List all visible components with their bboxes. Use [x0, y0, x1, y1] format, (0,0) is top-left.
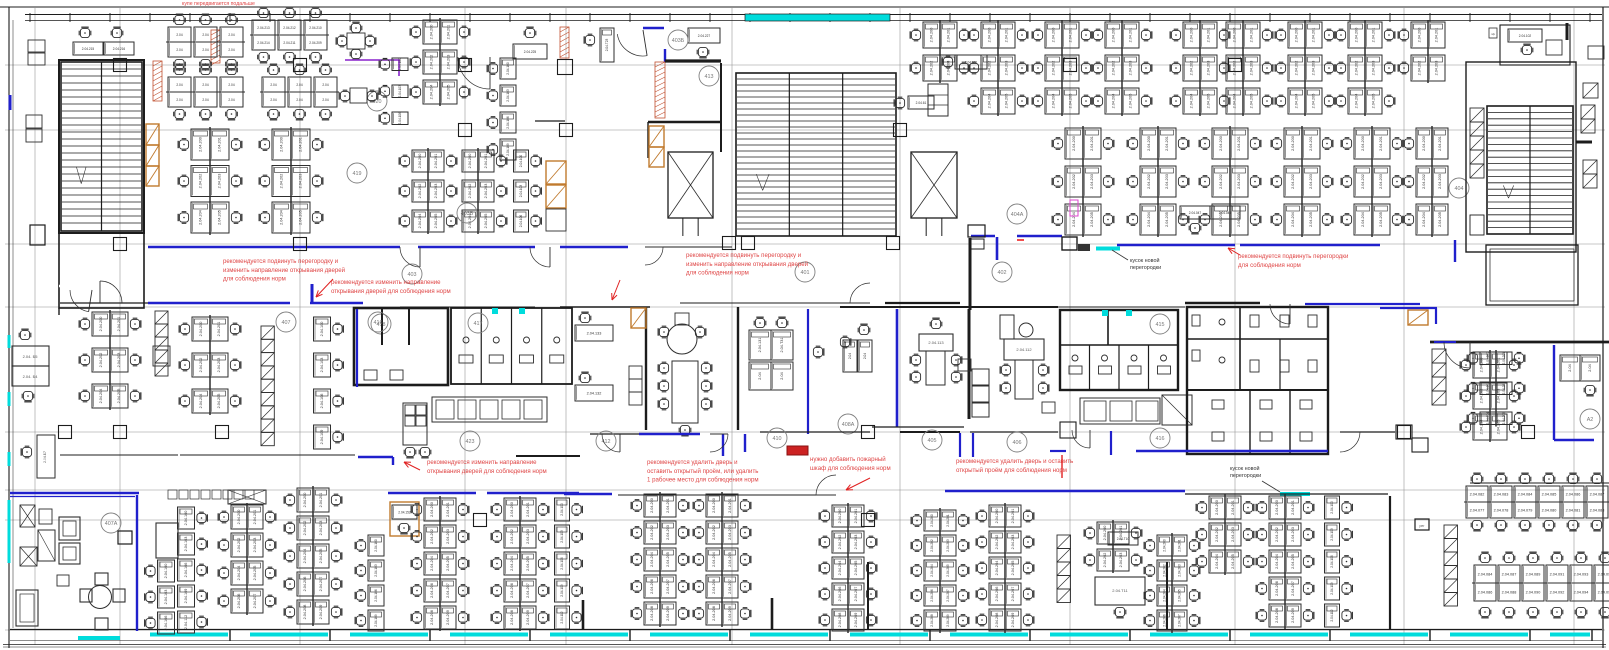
svg-text:2.04.203: 2.04.203 — [854, 535, 858, 550]
svg-text:2.04.095: 2.04.095 — [1598, 572, 1609, 576]
svg-text:2.04.215: 2.04.215 — [82, 47, 95, 51]
circle 404A — [1007, 204, 1027, 224]
svg-text:2.04.200: 2.04.200 — [1215, 500, 1219, 515]
svg-text:2.04.100: 2.04.100 — [320, 322, 324, 337]
svg-text:2.04: 2.04 — [758, 372, 762, 379]
svg-text:2.04.208: 2.04.208 — [930, 614, 934, 627]
svg-text:2.04.048: 2.04.048 — [1219, 211, 1232, 215]
WC right block — [1187, 307, 1328, 454]
svg-text:2.04.210: 2.04.210 — [309, 26, 322, 30]
svg-text:2.04.205: 2.04.205 — [1011, 561, 1015, 576]
svg-text:2.04.200: 2.04.200 — [1418, 28, 1422, 43]
svg-text:2.04.202: 2.04.202 — [303, 521, 307, 536]
svg-text:2.04.203: 2.04.203 — [666, 525, 670, 540]
svg-text:2.04.201: 2.04.201 — [946, 514, 950, 527]
svg-text:2.04.202: 2.04.202 — [838, 535, 842, 550]
svg-text:2.04.200: 2.04.200 — [1163, 539, 1167, 552]
svg-text:2.04.203: 2.04.203 — [434, 184, 438, 199]
svg-text:А2: А2 — [1587, 417, 1594, 423]
svg-text:2.04.227: 2.04.227 — [698, 34, 711, 38]
svg-text:2.04.205: 2.04.205 — [1207, 94, 1211, 109]
small table — [118, 531, 132, 544]
svg-text:2.04.205: 2.04.205 — [854, 561, 858, 576]
svg-text:2.04.Т10: 2.04.Т10 — [1117, 537, 1130, 541]
svg-text:403Б: 403Б — [461, 211, 474, 217]
svg-text:2.04.200: 2.04.200 — [237, 510, 241, 525]
svg-text:2.04.204: 2.04.204 — [1422, 212, 1426, 227]
shafts right of stair — [1583, 83, 1598, 98]
desk right of stair — [955, 55, 987, 69]
svg-text:2.04: 2.04 — [270, 98, 276, 102]
svg-text:2.04.200: 2.04.200 — [1052, 28, 1056, 43]
svg-text:2.04.205: 2.04.205 — [526, 556, 530, 571]
svg-text:2.04: 2.04 — [228, 98, 234, 102]
svg-text:2.04.202: 2.04.202 — [1052, 61, 1056, 76]
bottom right rows — [1466, 486, 1488, 502]
svg-text:2.04.209: 2.04.209 — [728, 606, 732, 621]
svg-text:2.04.201: 2.04.201 — [1438, 136, 1442, 151]
lower corridor bottom wall — [10, 492, 139, 495]
wall between — [645, 307, 647, 430]
svg-text:2.04.205: 2.04.205 — [1129, 94, 1133, 109]
svg-text:2.04: 2.04 — [202, 98, 208, 102]
svg-text:2.04.207: 2.04.207 — [446, 583, 450, 598]
svg-text:2.04: 2.04 — [322, 98, 328, 102]
blue wall left of WC — [356, 309, 358, 387]
round table group — [89, 586, 112, 609]
svg-text:2.04.205: 2.04.205 — [1312, 94, 1316, 109]
svg-text:2.04.204: 2.04.204 — [99, 389, 103, 404]
orange desk stack — [546, 161, 566, 184]
blue wall right — [1553, 345, 1555, 440]
svg-text:2.04.207: 2.04.207 — [1011, 587, 1015, 602]
svg-text:2.04.202: 2.04.202 — [430, 529, 434, 544]
svg-text:2.04.200: 2.04.200 — [1072, 136, 1076, 151]
svg-text:2.04.133: 2.04.133 — [587, 331, 602, 335]
right mid-band cluster 2.04.07x — [1473, 352, 1490, 378]
svg-text:2.04.214: 2.04.214 — [257, 41, 270, 45]
svg-text:2.04.205: 2.04.205 — [1438, 212, 1442, 227]
right stairwell block — [1466, 62, 1576, 252]
svg-text:2.04.100: 2.04.100 — [374, 539, 378, 552]
svg-text:2.04.207: 2.04.207 — [1178, 614, 1182, 627]
svg-text:2.04.200: 2.04.200 — [712, 498, 716, 513]
svg-text:2.04.213: 2.04.213 — [257, 26, 270, 30]
WC block left — [354, 308, 448, 385]
pink mark — [1070, 200, 1078, 216]
svg-text:2.04.201: 2.04.201 — [434, 154, 438, 169]
structural columns — [114, 238, 127, 251]
svg-text:2.04.200: 2.04.200 — [1480, 358, 1484, 373]
locker column mid2 — [261, 326, 274, 339]
circle 418 — [371, 314, 391, 334]
svg-text:2.04: 2.04 — [270, 83, 276, 87]
meeting room long table — [672, 361, 698, 423]
svg-text:2.04.086: 2.04.086 — [1566, 492, 1581, 496]
svg-text:2.04.085: 2.04.085 — [1542, 492, 1557, 496]
svg-text:2.04.109: 2.04.109 — [320, 430, 324, 445]
svg-text:2.04.207: 2.04.207 — [253, 594, 257, 609]
svg-text:404А: 404А — [1011, 212, 1024, 218]
svg-text:2.04.209: 2.04.209 — [666, 606, 670, 621]
svg-text:2.04.203: 2.04.203 — [1379, 174, 1383, 189]
upper corridor bottom wall — [60, 302, 148, 304]
svg-text:2.04.103: 2.04.103 — [184, 537, 188, 552]
svg-text:2.04.205: 2.04.205 — [1309, 212, 1313, 227]
main upper-left cluster — [191, 129, 210, 160]
svg-text:2.04.205: 2.04.205 — [484, 214, 488, 229]
svg-text:2.04.100: 2.04.100 — [506, 62, 510, 75]
svg-text:2.04.201: 2.04.201 — [1497, 358, 1501, 373]
kitchen counters below WC — [432, 397, 547, 422]
svg-text:2.04.202: 2.04.202 — [280, 174, 284, 189]
svg-text:2.04.081: 2.04.081 — [1566, 508, 1581, 512]
bottom cluster 6 — [504, 498, 520, 521]
svg-text:2.04.201: 2.04.201 — [854, 509, 858, 524]
shaft column left of right stair — [1470, 108, 1484, 122]
svg-text:2.04: 2.04 — [176, 33, 182, 37]
svg-text:нужно добавить пожарный: нужно добавить пожарный — [810, 456, 886, 463]
svg-text:2.04.201: 2.04.201 — [1005, 28, 1009, 43]
svg-text:2.04.106: 2.04.106 — [184, 563, 188, 578]
svg-text:2.04.206: 2.04.206 — [303, 577, 307, 592]
orange desk bottom — [390, 502, 419, 536]
svg-text:2.04: 2.04 — [228, 83, 234, 87]
svg-text:2.04.103: 2.04.103 — [320, 358, 324, 373]
blue partition corridor right — [1117, 244, 1235, 247]
svg-text:2.04.202: 2.04.202 — [510, 529, 514, 544]
svg-text:2.04.204: 2.04.204 — [1355, 94, 1359, 109]
svg-text:2.04.203: 2.04.203 — [1237, 174, 1241, 189]
svg-text:купе передвигается подальше: купе передвигается подальше — [182, 1, 255, 7]
svg-text:для соблюдения норм: для соблюдения норм — [223, 276, 286, 283]
door jambs below 112 — [959, 433, 961, 457]
svg-text:2.04.Т23: 2.04.Т23 — [605, 38, 609, 51]
svg-text:2.04.206: 2.04.206 — [650, 579, 654, 594]
svg-text:2.04.206: 2.04.206 — [995, 587, 999, 602]
svg-text:2.04.201: 2.04.201 — [117, 317, 121, 332]
elevator left — [668, 152, 713, 218]
svg-text:лф: лф — [1491, 32, 1496, 36]
svg-text:2.04.084: 2.04.084 — [1478, 572, 1493, 576]
svg-text:2.04.200: 2.04.200 — [510, 502, 514, 517]
svg-text:2.04: 2.04 — [296, 83, 302, 87]
room 2.04.113 walls — [896, 309, 899, 427]
svg-text:2.04.208: 2.04.208 — [430, 610, 434, 625]
svg-text:2.04.203: 2.04.203 — [253, 538, 257, 553]
svg-text:2.04.086: 2.04.086 — [1478, 590, 1493, 594]
svg-text:2.04.201: 2.04.201 — [218, 137, 222, 152]
svg-text:417: 417 — [474, 321, 483, 327]
central stair bottom columns — [723, 237, 736, 250]
bottom cluster 3 — [297, 488, 313, 512]
svg-text:2.04.106: 2.04.106 — [398, 112, 402, 125]
svg-text:2.04.204: 2.04.204 — [995, 561, 999, 576]
svg-text:2.04.204: 2.04.204 — [1233, 94, 1237, 109]
svg-text:для соблюдения норм: для соблюдения норм — [1238, 262, 1301, 269]
svg-text:изменить направление открывани: изменить направление открывания дверей — [223, 267, 345, 274]
svg-text:2.04: 2.04 — [296, 98, 302, 102]
circle 403B — [457, 203, 477, 223]
svg-text:2.04.204: 2.04.204 — [430, 85, 434, 100]
middle cluster 3 — [314, 317, 331, 341]
svg-text:2.04.106: 2.04.106 — [374, 589, 378, 602]
svg-text:2.04.204: 2.04.204 — [1291, 212, 1295, 227]
svg-text:2.04.203: 2.04.203 — [1011, 535, 1015, 550]
svg-text:2.04.206: 2.04.206 — [430, 583, 434, 598]
svg-text:2.04: 2.04 — [202, 48, 208, 52]
bottom right row 3 chairs — [1479, 607, 1491, 617]
red hatch strip left — [153, 61, 162, 101]
svg-text:2.04.203: 2.04.203 — [1497, 389, 1501, 404]
svg-text:2.04.206: 2.04.206 — [510, 583, 514, 598]
svg-text:рекомендуется изменить направл: рекомендуется изменить направление — [427, 459, 537, 466]
svg-text:2.04.083: 2.04.083 — [1494, 492, 1509, 496]
svg-text:открывания дверей для соблюден: открывания дверей для соблюдения норм — [427, 468, 547, 475]
svg-text:2.04.204: 2.04.204 — [1163, 589, 1167, 602]
svg-text:2.04.211: 2.04.211 — [283, 41, 295, 45]
upper corridor top wall — [148, 246, 400, 248]
bottom cluster 2 — [228, 490, 266, 504]
cluster x430 — [423, 20, 440, 44]
svg-text:2.04.205: 2.04.205 — [299, 210, 303, 225]
meeting room 1 desks 2.04.133 — [575, 325, 613, 341]
svg-text:2.04.203: 2.04.203 — [947, 61, 951, 76]
svg-text:2.04.109: 2.04.109 — [560, 584, 564, 597]
svg-text:2.04.205: 2.04.205 — [447, 85, 451, 100]
svg-text:2.04.207: 2.04.207 — [1291, 581, 1295, 596]
svg-text:2.04.216: 2.04.216 — [113, 47, 126, 51]
desks left of room 113 — [843, 340, 857, 372]
svg-text:2.04.205: 2.04.205 — [1379, 212, 1383, 227]
blue wall x808 — [807, 309, 809, 434]
svg-text:2.04.205: 2.04.205 — [1497, 420, 1501, 435]
door arcs entry — [458, 57, 490, 89]
svg-text:2.04.200: 2.04.200 — [838, 509, 842, 524]
svg-text:2.04.200: 2.04.200 — [430, 502, 434, 517]
svg-text:2.04.204: 2.04.204 — [1275, 554, 1279, 569]
svg-text:2.04.201: 2.04.201 — [1231, 500, 1235, 515]
bottom tiny row — [168, 490, 177, 499]
svg-text:кусок новой: кусок новой — [1130, 257, 1159, 264]
meeting room round table — [667, 324, 697, 354]
svg-text:2.04.206: 2.04.206 — [237, 594, 241, 609]
svg-text:2.04.106: 2.04.106 — [164, 616, 168, 631]
svg-text:2.04.096: 2.04.096 — [1598, 590, 1609, 594]
svg-text:2.04.Б7: 2.04.Б7 — [43, 451, 47, 463]
svg-text:2.04.103: 2.04.103 — [1330, 528, 1334, 541]
circle 407A — [101, 513, 121, 533]
desks above left stair — [73, 42, 103, 55]
svg-text:2.04.200: 2.04.200 — [199, 322, 203, 337]
svg-text:2.04.200: 2.04.200 — [199, 137, 203, 152]
svg-text:2.04.206: 2.04.206 — [930, 589, 934, 602]
svg-text:2.04.200: 2.04.200 — [303, 493, 307, 508]
svg-text:2.04.202: 2.04.202 — [995, 535, 999, 550]
outer top wall — [0, 6, 1609, 8]
svg-text:2.04.201: 2.04.201 — [484, 154, 488, 169]
cluster A2 — [168, 77, 191, 92]
svg-text:2.04.103: 2.04.103 — [560, 530, 564, 543]
svg-text:2.04.202: 2.04.202 — [199, 358, 203, 373]
svg-text:2.04.100: 2.04.100 — [519, 155, 523, 168]
svg-text:403: 403 — [408, 272, 417, 278]
svg-text:2.04.079: 2.04.079 — [1518, 508, 1533, 512]
lockers col x497 — [500, 58, 516, 79]
svg-text:2.04: 2.04 — [176, 98, 182, 102]
svg-text:2.04.202: 2.04.202 — [1418, 61, 1422, 76]
cluster A — [168, 27, 191, 42]
outer right wall — [1602, 7, 1604, 648]
table T11 — [1095, 577, 1145, 605]
svg-text:2.04: 2.04 — [1588, 364, 1592, 371]
svg-text:2.04.089: 2.04.089 — [1526, 572, 1541, 576]
lower corridor top wall — [60, 454, 178, 456]
svg-text:2.04.203: 2.04.203 — [1438, 174, 1442, 189]
svg-text:2.04.206: 2.04.206 — [1163, 614, 1167, 627]
svg-text:2.04.204: 2.04.204 — [650, 552, 654, 567]
svg-text:2.04.201: 2.04.201 — [253, 510, 257, 525]
svg-text:2.04.204: 2.04.204 — [1295, 94, 1299, 109]
svg-text:2.04.204: 2.04.204 — [988, 94, 992, 109]
svg-text:2.04. Б5: 2.04. Б5 — [23, 354, 39, 359]
svg-text:2.04.112: 2.04.112 — [184, 615, 188, 630]
svg-text:2.04.200: 2.04.200 — [1275, 500, 1279, 515]
svg-text:2.04.202: 2.04.202 — [650, 525, 654, 540]
svg-text:2.04.200: 2.04.200 — [930, 28, 934, 43]
entry desks 2.04.227 — [688, 28, 720, 43]
left stairwell walls — [59, 60, 144, 233]
svg-text:2.04.202: 2.04.202 — [1233, 61, 1237, 76]
svg-text:2.04.205: 2.04.205 — [217, 394, 221, 409]
svg-text:1 рабочее место для соблюдения: 1 рабочее место для соблюдения норм — [647, 477, 759, 484]
svg-text:406: 406 — [1013, 440, 1022, 446]
svg-text:413: 413 — [705, 74, 714, 80]
svg-text:2.04.201: 2.04.201 — [1372, 28, 1376, 43]
corridor circles lower — [596, 431, 616, 451]
reg box — [1415, 519, 1429, 530]
svg-text:401: 401 — [801, 270, 810, 276]
svg-text:2.04.209: 2.04.209 — [854, 613, 858, 628]
svg-text:2.04.090: 2.04.090 — [1526, 590, 1541, 594]
svg-text:2.04.106: 2.04.106 — [320, 394, 324, 409]
desk 2.04.61 — [908, 96, 934, 109]
purple partition — [345, 59, 400, 61]
svg-text:2.04.100: 2.04.100 — [184, 511, 188, 526]
svg-text:2.04.205: 2.04.205 — [218, 210, 222, 225]
room 413 walls — [535, 120, 565, 122]
svg-text:2.04.091: 2.04.091 — [1550, 572, 1565, 576]
svg-text:2.04.200: 2.04.200 — [1355, 28, 1359, 43]
svg-text:2.04.206: 2.04.206 — [838, 587, 842, 602]
svg-text:2.04.203: 2.04.203 — [117, 353, 121, 368]
svg-text:2.04.202: 2.04.202 — [468, 184, 472, 199]
WC stalls right — [451, 308, 572, 384]
outer left wall — [8, 7, 10, 648]
svg-text:2.04.201: 2.04.201 — [1129, 28, 1133, 43]
svg-text:перегородки: перегородки — [1130, 265, 1161, 271]
orange stack left — [146, 124, 159, 145]
rooms above right stair — [1500, 25, 1570, 65]
svg-text:2.04.202: 2.04.202 — [988, 61, 992, 76]
svg-text:2.04.203: 2.04.203 — [1090, 174, 1094, 189]
svg-text:2.04.109: 2.04.109 — [506, 143, 510, 156]
kitchenette center — [928, 84, 948, 116]
svg-text:2.04.109: 2.04.109 — [1330, 582, 1334, 595]
svg-text:410: 410 — [773, 436, 782, 442]
svg-text:рекомендуется подвинуть перего: рекомендуется подвинуть перегородки — [1238, 253, 1348, 260]
svg-text:2.04.200: 2.04.200 — [99, 317, 103, 332]
svg-text:2.04.200: 2.04.200 — [1295, 28, 1299, 43]
svg-text:407А: 407А — [105, 521, 118, 527]
svg-text:2.04.Т31: 2.04.Т31 — [780, 338, 784, 353]
svg-text:2.04.202: 2.04.202 — [930, 539, 934, 552]
room 2.04.131 — [749, 330, 771, 360]
svg-text:2.04.208: 2.04.208 — [510, 610, 514, 625]
svg-text:2.04.208: 2.04.208 — [838, 613, 842, 628]
desks room 419 — [392, 58, 408, 71]
svg-text:2.04.202: 2.04.202 — [1072, 174, 1076, 189]
svg-text:2.04.077: 2.04.077 — [1470, 508, 1485, 512]
svg-text:2.04.201: 2.04.201 — [728, 498, 732, 513]
svg-text:2.04.209: 2.04.209 — [319, 605, 323, 620]
svg-text:2.04.201: 2.04.201 — [217, 322, 221, 337]
hatch lockers right — [1432, 349, 1446, 363]
svg-text:2.04.201: 2.04.201 — [1309, 136, 1313, 151]
lockers col bottom right — [1444, 525, 1458, 539]
lockers bottom — [1057, 535, 1071, 549]
blue stub corridor — [311, 284, 314, 302]
svg-text:2.04.201: 2.04.201 — [299, 137, 303, 152]
svg-text:2.04.205: 2.04.205 — [253, 566, 257, 581]
svg-text:2.04.203: 2.04.203 — [1069, 61, 1073, 76]
cyan new partition top — [745, 14, 890, 21]
svg-text:2.04.203: 2.04.203 — [299, 174, 303, 189]
svg-text:2.04.084: 2.04.084 — [1518, 492, 1533, 496]
svg-text:2.04.204: 2.04.204 — [838, 561, 842, 576]
svg-text:2.04.212: 2.04.212 — [283, 26, 296, 30]
svg-text:2.04.205: 2.04.205 — [434, 214, 438, 229]
svg-text:2.04.202: 2.04.202 — [1190, 61, 1194, 76]
door arcs corridors — [400, 247, 420, 267]
svg-text:2.04.208: 2.04.208 — [712, 606, 716, 621]
svg-text:2.04.205: 2.04.205 — [1178, 589, 1182, 602]
svg-text:рекомендуется подвинуть перего: рекомендуется подвинуть перегородку и — [223, 258, 338, 265]
svg-text:2.04.047: 2.04.047 — [1189, 211, 1202, 215]
desk 2.04.047 — [1180, 206, 1210, 219]
svg-text:2.04.102: 2.04.102 — [1519, 34, 1532, 38]
svg-text:2.04.201: 2.04.201 — [1069, 28, 1073, 43]
svg-text:2.04.204: 2.04.204 — [199, 394, 203, 409]
orange stack center — [649, 126, 664, 147]
svg-text:2.04.103: 2.04.103 — [519, 185, 523, 198]
svg-text:2.04.202: 2.04.202 — [1295, 61, 1299, 76]
svg-text:416: 416 — [374, 320, 383, 326]
svg-text:2.04.200: 2.04.200 — [988, 28, 992, 43]
svg-text:2.04: 2.04 — [322, 83, 328, 87]
svg-text:2.04.204: 2.04.204 — [280, 210, 284, 225]
svg-text:2.04.205: 2.04.205 — [1291, 554, 1295, 569]
svg-text:416: 416 — [1156, 436, 1165, 442]
svg-text:2.04.203: 2.04.203 — [526, 529, 530, 544]
svg-text:2.04.204: 2.04.204 — [199, 210, 203, 225]
svg-text:2.04.201: 2.04.201 — [1379, 136, 1383, 151]
svg-text:2.04.202: 2.04.202 — [1361, 174, 1365, 189]
lockers between rooms — [972, 369, 989, 385]
top-center clusters row — [923, 22, 940, 48]
outer bottom wall — [10, 629, 1602, 631]
svg-text:рекомендуется подвинуть перего: рекомендуется подвинуть перегородку и — [686, 252, 801, 259]
